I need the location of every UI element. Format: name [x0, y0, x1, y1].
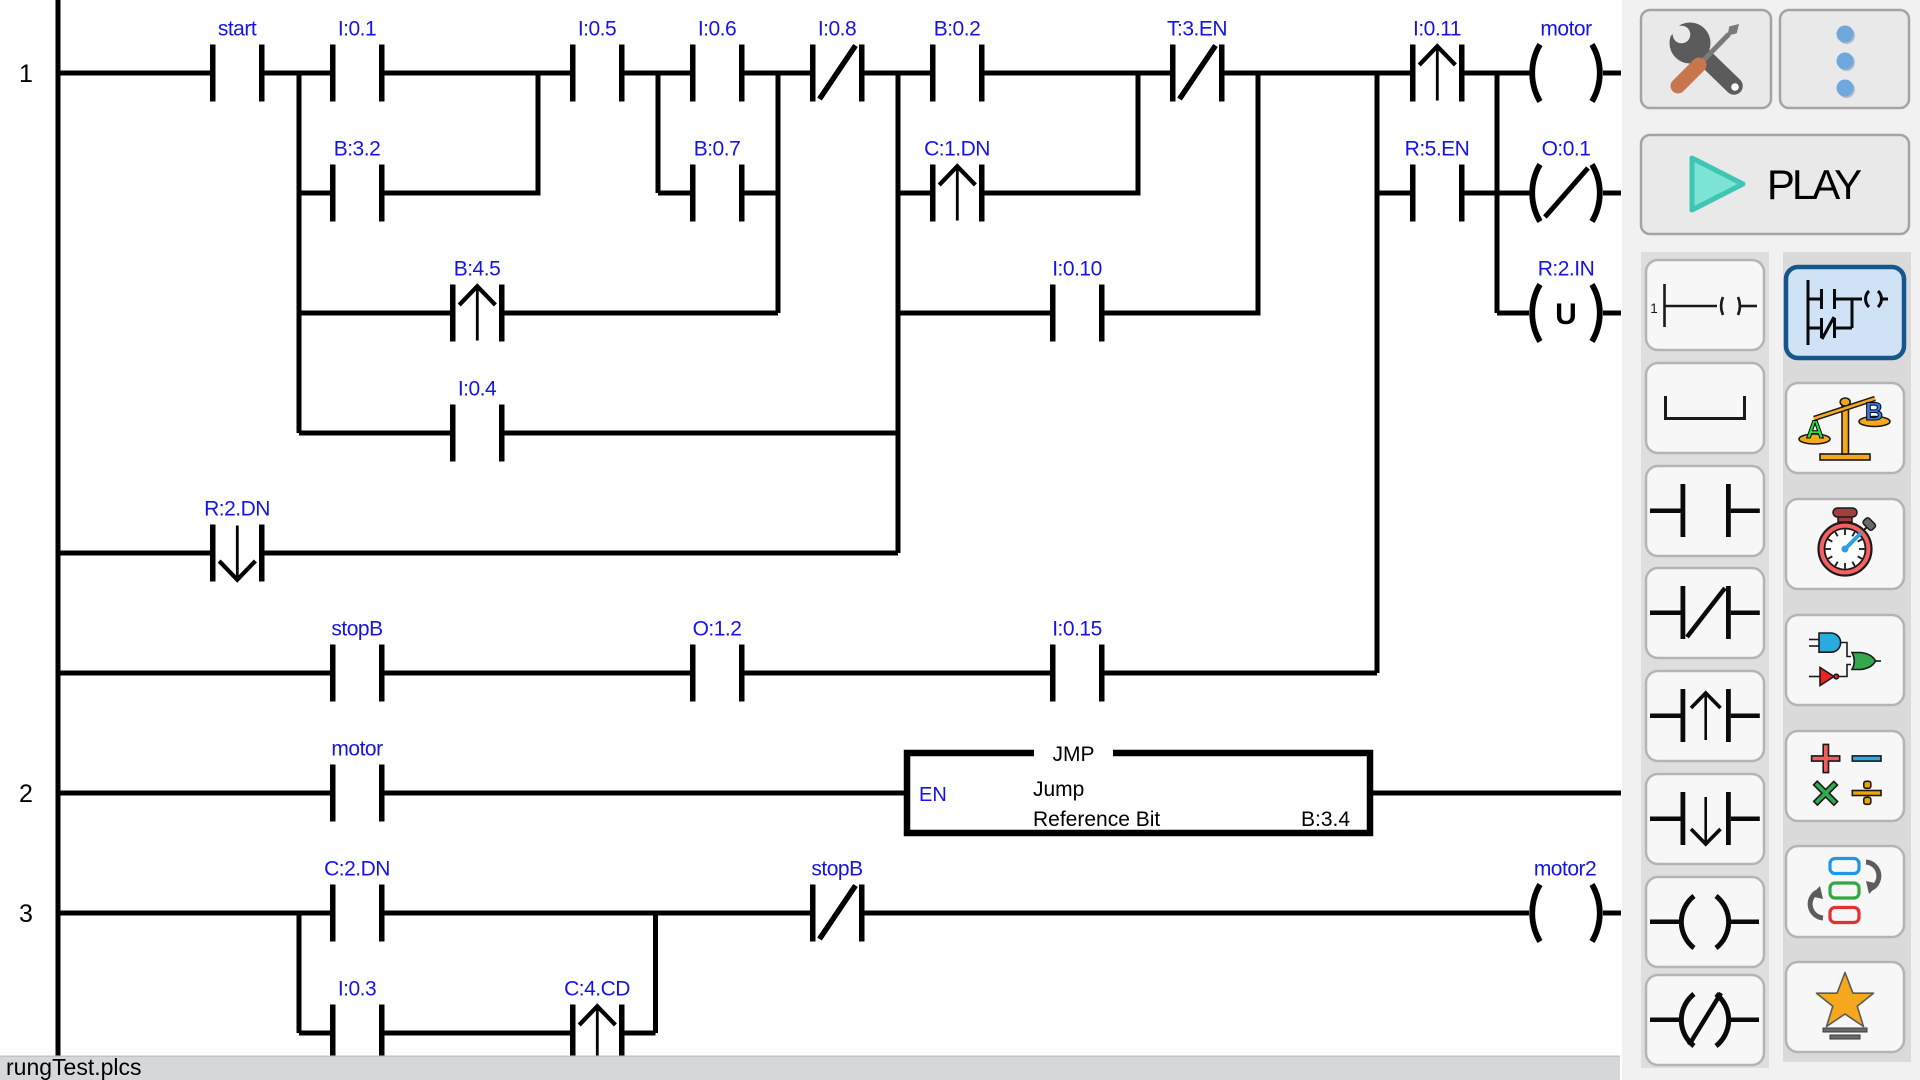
contact R:2.DN (falling edge)	[210, 525, 265, 582]
wire start to I:0.1 across node A	[265, 71, 331, 76]
wire I:0.10 to node G	[1105, 311, 1261, 316]
wire O:1.2 to I:0.15	[745, 671, 1051, 676]
wire B:3.2 to node B	[385, 191, 541, 196]
panel background	[1622, 0, 1920, 1080]
contact I:0.10 (NO)	[1050, 285, 1105, 342]
coil motor2	[1532, 885, 1600, 942]
contact start (NO)	[210, 45, 265, 102]
wire I:0.1 to I:0.5 across node B	[385, 71, 571, 76]
svg-text:T:3.EN: T:3.EN	[1167, 18, 1227, 41]
coil motor	[1532, 45, 1600, 102]
wire rung1 rail to start	[58, 71, 210, 76]
svg-text:R:5.EN: R:5.EN	[1405, 138, 1470, 161]
icon play triangle	[1692, 158, 1743, 210]
svg-text:I:0.10: I:0.10	[1052, 258, 1102, 281]
icon star	[1817, 973, 1874, 1040]
right tool column strip	[1783, 252, 1911, 1062]
wire C:4.CD to right riser	[625, 1031, 656, 1036]
wire I:0.4 to node E	[505, 431, 899, 436]
contact motor (NO)	[330, 765, 385, 822]
button star	[1786, 962, 1904, 1052]
button falling edge contact	[1646, 774, 1764, 864]
svg-text:R:2.IN: R:2.IN	[1538, 258, 1595, 281]
icon sequence blocks	[1810, 859, 1879, 923]
wire I:0.5 to I:0.6 across node C	[625, 71, 691, 76]
wire I:0.3 to C:4.CD	[385, 1031, 571, 1036]
wrench head	[1670, 23, 1711, 64]
node I vertical riser x=1497 y=73..313	[1495, 73, 1500, 313]
coil O:0.1 (NC)	[1532, 165, 1600, 222]
contact I:0.8 (NC)	[810, 45, 865, 102]
contact I:0.4 (NO)	[450, 405, 505, 462]
svg-text:PLAY: PLAY	[1767, 161, 1862, 208]
button sequence	[1786, 846, 1904, 937]
node C vertical riser x=658 y=73..193	[656, 73, 661, 193]
wire node I to R:2.IN coil	[1497, 311, 1529, 316]
contact C:1.DN (rising edge)	[930, 165, 985, 222]
svg-text:rungTest.plcs: rungTest.plcs	[6, 1054, 142, 1080]
button timer	[1786, 499, 1904, 589]
icon stopwatch	[1819, 508, 1877, 576]
svg-text:I:0.1: I:0.1	[338, 18, 376, 41]
svg-text:motor: motor	[331, 738, 383, 761]
contact stopB (NO)	[330, 645, 385, 702]
screwdriver tip spear	[1728, 24, 1740, 36]
wire motor contact to JMP box	[385, 791, 908, 796]
contact B:0.2 (NO)	[930, 45, 985, 102]
svg-text:B:3.4: B:3.4	[1301, 808, 1350, 831]
screwdriver handle	[1678, 65, 1699, 86]
wire I:0.11 to motor coil across node I	[1465, 71, 1530, 76]
wire node H to R:5.EN	[1377, 191, 1410, 196]
svg-text:U: U	[1555, 298, 1577, 331]
contact I:0.5 (NO)	[570, 45, 625, 102]
node H vertical riser x=1377 y=73..673	[1375, 73, 1380, 673]
svg-text:start: start	[218, 18, 257, 41]
svg-text:B: B	[1865, 398, 1883, 426]
svg-text:3: 3	[19, 900, 33, 928]
node B vertical riser x=538 y=73..193	[536, 73, 541, 193]
contact O:1.2 (NO)	[690, 645, 745, 702]
wire T:3.EN to I:0.11 across nodes G and H	[1225, 71, 1411, 76]
wire rail to R:2.DN	[58, 551, 210, 556]
instruction box JMP	[907, 746, 1370, 833]
svg-text:1: 1	[1650, 301, 1658, 316]
wire B:0.7 to node D	[745, 191, 781, 196]
button new rung	[1646, 260, 1764, 350]
icon compare scale	[1799, 398, 1890, 460]
svg-text:B:3.2: B:3.2	[334, 138, 381, 161]
contact B:3.2 (NO)	[330, 165, 385, 222]
wire C:2.DN to stopB NC	[385, 911, 811, 916]
wire I:0.15 to node H	[1105, 671, 1378, 676]
coil R:2.IN (unlatch U)	[1532, 285, 1600, 342]
svg-text:I:0.4: I:0.4	[458, 378, 497, 401]
wire I:0.8 to B:0.2 across node E	[865, 71, 931, 76]
button tools	[1641, 10, 1771, 108]
wire node C to B:0.7	[658, 191, 690, 196]
left tool column strip	[1641, 252, 1769, 1068]
screwdriver shaft	[1697, 34, 1729, 67]
wire node E to C:1.DN	[898, 191, 930, 196]
wire stopB NC to motor2 coil	[865, 911, 1530, 916]
icon NC coil	[1650, 993, 1759, 1046]
wire node A to I:0.4	[299, 431, 450, 436]
svg-text:1: 1	[19, 60, 33, 88]
wire node A to B:4.5	[299, 311, 450, 316]
svg-text:I:0.3: I:0.3	[338, 978, 376, 1001]
icon coil	[1650, 896, 1759, 948]
wire I:0.6 to I:0.8 across node D	[745, 71, 811, 76]
wire R:2.IN coil to edge	[1603, 311, 1621, 316]
node A vertical riser x=299 y=73..433	[297, 73, 302, 433]
svg-text:R:2.DN: R:2.DN	[204, 498, 270, 521]
button NC coil	[1646, 975, 1764, 1065]
contact I:0.15 (NO)	[1050, 645, 1105, 702]
wire O:0.1 coil to edge	[1603, 191, 1621, 196]
button NC contact	[1646, 568, 1764, 658]
svg-text:Reference Bit: Reference Bit	[1033, 808, 1160, 831]
icon empty rung	[1666, 396, 1745, 419]
button empty rung	[1646, 363, 1764, 453]
svg-text:JMP: JMP	[1053, 743, 1095, 766]
node G vertical riser x=1258 y=73..313	[1256, 73, 1261, 313]
node F vertical riser x=1138 y=73..193	[1136, 73, 1141, 193]
svg-text:B:4.5: B:4.5	[454, 258, 501, 281]
button rising edge contact	[1646, 671, 1764, 761]
icon NC contact	[1650, 586, 1760, 639]
contact I:0.6 (NO)	[690, 45, 745, 102]
svg-text:C:1.DN: C:1.DN	[924, 138, 990, 161]
svg-text:O:0.1: O:0.1	[1542, 138, 1591, 161]
icon falling edge contact	[1650, 792, 1760, 845]
button coil	[1646, 877, 1764, 967]
icon new rung	[1665, 284, 1758, 327]
contact B:4.5 (rising edge)	[450, 285, 505, 342]
button branch (selected)	[1786, 267, 1904, 358]
wire C:1.DN to node F	[985, 191, 1141, 196]
contact I:0.11 (rising edge)	[1410, 45, 1465, 102]
icon menu three dots	[1837, 26, 1856, 99]
svg-text:Jump: Jump	[1033, 778, 1084, 801]
left power rail	[56, 0, 61, 1056]
contact T:3.EN (NC)	[1170, 45, 1225, 102]
wire B:0.2 to T:3.EN across node F	[985, 71, 1171, 76]
wire JMP box to edge	[1373, 791, 1621, 796]
wire rung3 rail to C:2.DN across branch node	[58, 911, 330, 916]
svg-text:motor: motor	[1540, 18, 1592, 41]
svg-text:EN: EN	[919, 784, 947, 806]
wire rung2 rail to motor contact	[58, 791, 330, 796]
wire motor2 coil to edge	[1603, 911, 1621, 916]
icon math operators	[1805, 744, 1881, 813]
wrench hole	[1731, 83, 1739, 91]
wire stopB to O:1.2	[385, 671, 691, 676]
icon logic gates	[1809, 633, 1881, 686]
wire riser to I:0.3	[299, 1031, 330, 1036]
wire B:4.5 to node D	[505, 311, 779, 316]
svg-text:stopB: stopB	[331, 618, 382, 641]
icon rising edge contact	[1650, 689, 1760, 742]
contact C:2.DN (NO)	[330, 885, 385, 942]
svg-text:motor2: motor2	[1534, 858, 1596, 881]
rung3 branch right riser x=655 y=913..1033	[653, 913, 658, 1033]
contact R:5.EN (NO)	[1410, 165, 1465, 222]
svg-text:O:1.2: O:1.2	[693, 618, 742, 641]
svg-text:C:4.CD: C:4.CD	[564, 978, 630, 1001]
button NO contact	[1646, 466, 1764, 556]
svg-text:I:0.15: I:0.15	[1052, 618, 1102, 641]
button logic gates	[1786, 615, 1904, 705]
wire motor coil to edge	[1603, 71, 1621, 76]
svg-text:B:0.7: B:0.7	[694, 138, 741, 161]
svg-text:I:0.5: I:0.5	[578, 18, 616, 41]
node D vertical riser x=778 y=73..313	[776, 73, 781, 313]
wire rail to stopB	[58, 671, 330, 676]
svg-text:I:0.11: I:0.11	[1413, 18, 1461, 41]
wire node A to B:3.2	[299, 191, 330, 196]
status bar	[0, 1056, 1620, 1080]
rung3 branch left riser x=299 y=913..1033	[297, 913, 302, 1033]
svg-text:A: A	[1806, 416, 1824, 444]
svg-text:2: 2	[19, 780, 33, 808]
button PLAY	[1641, 135, 1909, 234]
svg-text:stopB: stopB	[811, 858, 862, 881]
button math	[1786, 731, 1904, 821]
contact I:0.3 (NO, clipped by status bar)	[330, 1005, 385, 1062]
wire R:2.DN to node E	[265, 551, 899, 556]
contact I:0.1 (NO)	[330, 45, 385, 102]
icon branch ladder	[1808, 280, 1888, 345]
contact C:4.CD (rising edge, clipped)	[570, 1005, 625, 1062]
svg-text:C:2.DN: C:2.DN	[324, 858, 390, 881]
svg-text:I:0.6: I:0.6	[698, 18, 736, 41]
icon NO contact	[1650, 484, 1760, 537]
slash of O:0.1 NC coil	[1545, 168, 1588, 217]
button compare A/B	[1786, 383, 1904, 473]
node E vertical riser x=898 y=73..553	[896, 73, 901, 553]
button menu	[1780, 10, 1909, 108]
wrench handle	[1700, 53, 1734, 86]
contact B:0.7 (NO)	[690, 165, 745, 222]
wire R:5.EN to O:0.1 coil across node I	[1465, 191, 1530, 196]
wire node E to I:0.10	[898, 311, 1050, 316]
svg-text:I:0.8: I:0.8	[818, 18, 856, 41]
contact stopB (NC)	[810, 885, 865, 942]
svg-text:B:0.2: B:0.2	[934, 18, 981, 41]
